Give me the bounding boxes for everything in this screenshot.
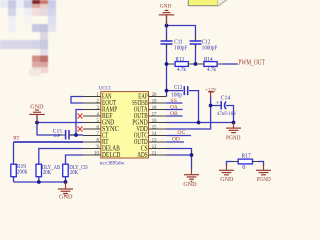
svg-text:100p: 100p: [171, 92, 182, 98]
svg-text:100pF: 100pF: [174, 45, 187, 51]
svg-text:GND: GND: [160, 4, 172, 10]
svg-text:19: 19: [152, 99, 157, 104]
svg-text:20K: 20K: [70, 170, 79, 177]
svg-text:PGND: PGND: [226, 135, 240, 141]
svg-text:20K: 20K: [43, 170, 52, 177]
svg-text:1000pF: 1000pF: [202, 45, 217, 51]
svg-text:PWM_OUT: PWM_OUT: [238, 59, 264, 67]
svg-text:GND: GND: [183, 182, 197, 188]
svg-text:OD: OD: [172, 137, 180, 143]
svg-text:PGND: PGND: [132, 119, 148, 127]
svg-text:17: 17: [152, 112, 157, 117]
svg-text:R13: R13: [175, 57, 184, 63]
svg-text:DELCD: DELCD: [102, 151, 121, 159]
svg-text:C13: C13: [174, 85, 183, 92]
svg-text:11: 11: [152, 151, 157, 156]
svg-text:+12V: +12V: [205, 87, 216, 93]
svg-text:OA: OA: [170, 105, 178, 111]
svg-text:GND: GND: [30, 105, 44, 111]
svg-text:16: 16: [152, 119, 157, 124]
svg-text:47nF/16V: 47nF/16V: [217, 112, 237, 117]
svg-text:OC: OC: [177, 130, 185, 136]
svg-text:200k: 200k: [17, 169, 28, 175]
svg-text:12: 12: [152, 145, 157, 150]
svg-text:R14: R14: [204, 57, 213, 63]
svg-text:4.7k: 4.7k: [207, 67, 216, 73]
svg-text:UCC1: UCC1: [99, 85, 111, 91]
svg-text:1nF: 1nF: [53, 133, 61, 138]
svg-text:C14: C14: [221, 95, 231, 101]
svg-text:CS: CS: [141, 145, 148, 153]
svg-text:RT: RT: [13, 135, 20, 141]
svg-text:GND: GND: [59, 195, 73, 201]
svg-text:10: 10: [94, 151, 99, 156]
svg-text:R17: R17: [241, 153, 251, 159]
svg-text:13: 13: [152, 138, 157, 143]
svg-text:0: 0: [242, 164, 245, 171]
svg-text:SS: SS: [170, 98, 177, 104]
svg-text:18: 18: [152, 106, 157, 111]
svg-text:GND: GND: [220, 177, 234, 183]
svg-text:ADS: ADS: [137, 152, 147, 159]
svg-text:PGND: PGND: [257, 177, 271, 183]
svg-text:14: 14: [152, 132, 157, 137]
svg-text:OB: OB: [170, 111, 178, 117]
svg-text:20: 20: [152, 93, 157, 98]
svg-text:4.7k: 4.7k: [177, 67, 186, 73]
svg-text:ucc3895dw: ucc3895dw: [100, 160, 125, 166]
svg-text:15: 15: [152, 125, 157, 130]
